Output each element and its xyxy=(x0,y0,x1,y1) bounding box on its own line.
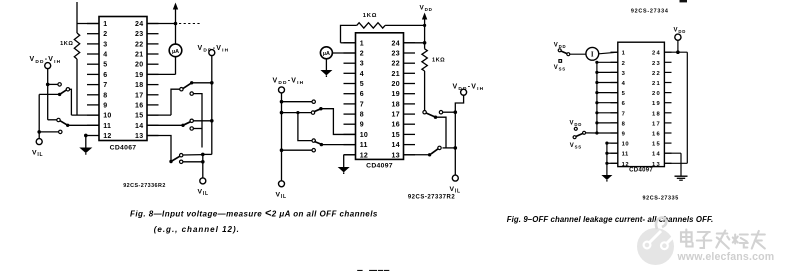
svg-text:4: 4 xyxy=(103,52,107,59)
svg-text:VDD: VDD xyxy=(570,121,583,128)
svg-text:5: 5 xyxy=(103,62,107,69)
svg-text:VDD: VDD xyxy=(674,28,687,35)
svg-text:9: 9 xyxy=(622,132,626,138)
svg-text:23: 23 xyxy=(652,61,661,67)
svg-text:µA: µA xyxy=(323,51,330,57)
svg-text:10: 10 xyxy=(622,142,629,148)
svg-text:10: 10 xyxy=(103,113,111,120)
svg-text:12: 12 xyxy=(360,152,368,159)
svg-text:5: 5 xyxy=(360,81,364,88)
svg-text:1KΩ: 1KΩ xyxy=(363,13,377,19)
svg-text:14: 14 xyxy=(392,142,400,149)
svg-text:1: 1 xyxy=(622,51,626,57)
svg-text:2: 2 xyxy=(622,61,626,67)
svg-text:8: 8 xyxy=(622,121,626,127)
svg-text:13: 13 xyxy=(652,162,661,168)
svg-text:14: 14 xyxy=(135,123,143,130)
svg-text:1: 1 xyxy=(103,21,107,28)
svg-text:6: 6 xyxy=(360,91,364,98)
svg-text:2: 2 xyxy=(103,31,107,38)
svg-text:3: 3 xyxy=(622,71,626,77)
svg-text:1KΩ: 1KΩ xyxy=(60,41,73,47)
svg-text:24: 24 xyxy=(652,51,661,57)
svg-text:92CS-27336R2: 92CS-27336R2 xyxy=(123,183,166,189)
svg-text:92CS-27334: 92CS-27334 xyxy=(631,9,669,15)
svg-text:5: 5 xyxy=(622,91,626,97)
svg-text:24: 24 xyxy=(392,40,400,47)
svg-text:Fig. 8—Input voltage—measure <: Fig. 8—Input voltage—measure <2 μA on al… xyxy=(130,207,378,219)
svg-text:18: 18 xyxy=(135,82,143,89)
svg-text:3: 3 xyxy=(103,41,107,48)
svg-text:1: 1 xyxy=(360,40,364,47)
svg-text:I: I xyxy=(591,50,594,58)
svg-text:15: 15 xyxy=(392,132,400,139)
svg-text:23: 23 xyxy=(392,51,400,58)
svg-text:19: 19 xyxy=(135,72,143,79)
svg-text:CD4067: CD4067 xyxy=(110,145,137,152)
svg-text:16: 16 xyxy=(135,102,143,109)
svg-text:CD4097: CD4097 xyxy=(629,168,653,174)
svg-text:7: 7 xyxy=(103,82,107,89)
svg-text:15: 15 xyxy=(652,142,661,148)
svg-text:24: 24 xyxy=(135,21,143,28)
svg-text:www.elecfans.com: www.elecfans.com xyxy=(677,251,775,263)
svg-text:8: 8 xyxy=(360,112,364,119)
svg-text:18: 18 xyxy=(392,101,400,108)
svg-text:11: 11 xyxy=(103,123,111,130)
svg-text:(e.g., channel 12).: (e.g., channel 12). xyxy=(154,225,240,234)
svg-text:16: 16 xyxy=(652,132,661,138)
svg-text:1KΩ: 1KΩ xyxy=(432,58,445,64)
svg-text:13: 13 xyxy=(135,133,143,140)
svg-text:21: 21 xyxy=(392,71,400,78)
svg-text:VDD: VDD xyxy=(554,43,567,50)
svg-text:7: 7 xyxy=(360,101,364,108)
svg-text:22: 22 xyxy=(652,71,661,77)
svg-text:18: 18 xyxy=(652,111,661,117)
svg-text:9: 9 xyxy=(360,122,364,129)
svg-text:12: 12 xyxy=(103,133,111,140)
svg-text:20: 20 xyxy=(652,91,661,97)
svg-text:92CS-27335: 92CS-27335 xyxy=(643,195,679,201)
svg-text:10: 10 xyxy=(360,132,368,139)
svg-text:17: 17 xyxy=(652,121,661,127)
svg-text:14: 14 xyxy=(652,152,661,158)
svg-text:6: 6 xyxy=(103,72,107,79)
svg-text:8: 8 xyxy=(103,92,107,99)
svg-text:11: 11 xyxy=(622,152,629,158)
svg-text:13: 13 xyxy=(392,152,400,159)
svg-text:CD4097: CD4097 xyxy=(366,162,393,169)
svg-text:3: 3 xyxy=(360,61,364,68)
svg-text:12: 12 xyxy=(622,162,629,168)
svg-text:21: 21 xyxy=(652,81,661,87)
svg-text:92CS-27337R2: 92CS-27337R2 xyxy=(408,195,456,201)
svg-text:Fig. 9–OFF channel leakage cur: Fig. 9–OFF channel leakage current- all … xyxy=(507,215,714,224)
svg-text:9: 9 xyxy=(103,102,107,109)
svg-text:21: 21 xyxy=(135,52,143,59)
svg-text:22: 22 xyxy=(135,41,143,48)
svg-text:VSS: VSS xyxy=(554,65,566,72)
svg-text:17: 17 xyxy=(392,112,400,119)
svg-text:16: 16 xyxy=(392,122,400,129)
svg-text:20: 20 xyxy=(392,81,400,88)
svg-text:19: 19 xyxy=(652,101,661,107)
svg-text:11: 11 xyxy=(360,142,368,149)
svg-text:22: 22 xyxy=(392,61,400,68)
svg-text:6: 6 xyxy=(622,101,626,107)
svg-text:VSS: VSS xyxy=(570,143,582,150)
svg-text:4: 4 xyxy=(622,81,626,87)
svg-text:23: 23 xyxy=(135,31,143,38)
svg-text:15: 15 xyxy=(135,113,143,120)
svg-text:17: 17 xyxy=(135,92,143,99)
svg-text:20: 20 xyxy=(135,62,143,69)
svg-text:4: 4 xyxy=(360,71,364,78)
svg-text:7: 7 xyxy=(622,111,626,117)
svg-text:µA: µA xyxy=(172,49,179,55)
svg-text:2: 2 xyxy=(360,51,364,58)
svg-text:19: 19 xyxy=(392,91,400,98)
